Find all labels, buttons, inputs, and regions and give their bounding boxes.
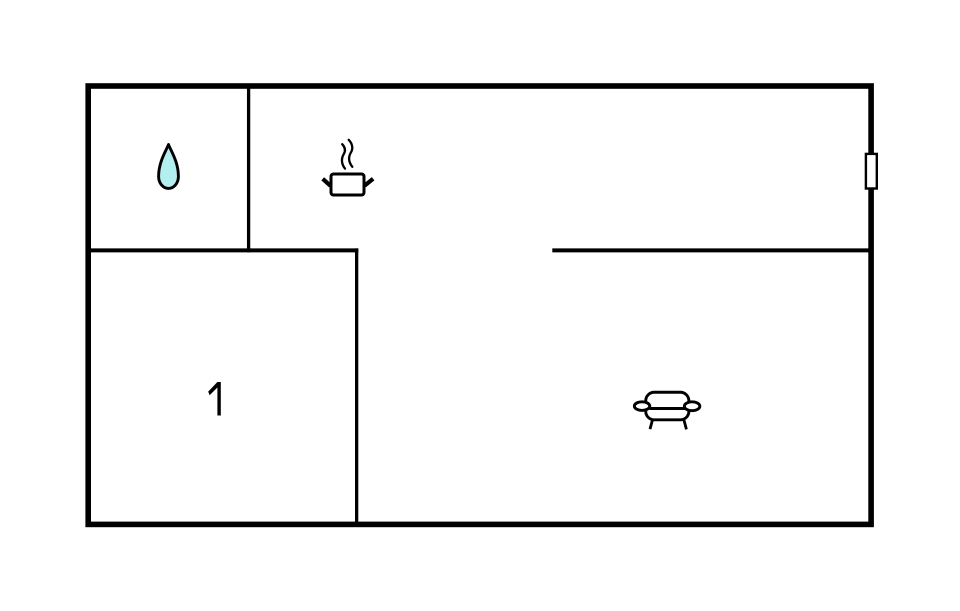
wall: bathroom divider vertical — [247, 86, 250, 252]
sofa seat line — [650, 407, 686, 410]
sofa right armrest — [684, 402, 700, 411]
window on right wall — [866, 154, 877, 189]
sofa icon (living room) — [634, 392, 700, 429]
pot left handle — [323, 179, 331, 186]
sofa left leg — [650, 420, 652, 429]
sofa body — [646, 392, 689, 420]
pot body — [331, 174, 364, 195]
wall: bedroom right vertical — [355, 248, 358, 523]
pot right handle — [365, 179, 374, 186]
outer wall — [88, 86, 871, 524]
sofa left armrest — [634, 402, 649, 411]
kitchen pot icon — [323, 140, 373, 195]
sofa right leg — [684, 420, 686, 429]
wall: bedroom top horizontal — [88, 248, 358, 252]
water drop icon (bathroom) — [159, 145, 179, 189]
steam wisp left — [342, 144, 345, 168]
steam wisp right — [349, 140, 353, 167]
wall: living room top horizontal — [552, 248, 871, 252]
room label 1 — [208, 382, 221, 416]
